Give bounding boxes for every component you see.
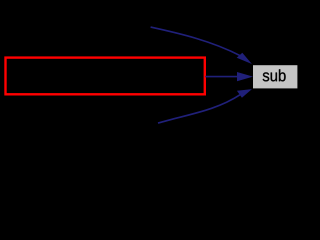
node sub (gray box): [253, 65, 297, 88]
arrowhead bottom: [237, 89, 252, 98]
edge middle straight to sub: [205, 76, 239, 78]
node main (red highlighted box): [6, 58, 205, 95]
arrowhead top: [237, 53, 252, 64]
label "sub" (Liberation Sans outlines): [263, 69, 286, 81]
arrowhead middle: [237, 72, 253, 81]
edge top curve to sub: [151, 27, 241, 56]
edge bottom curve to sub: [158, 95, 240, 124]
